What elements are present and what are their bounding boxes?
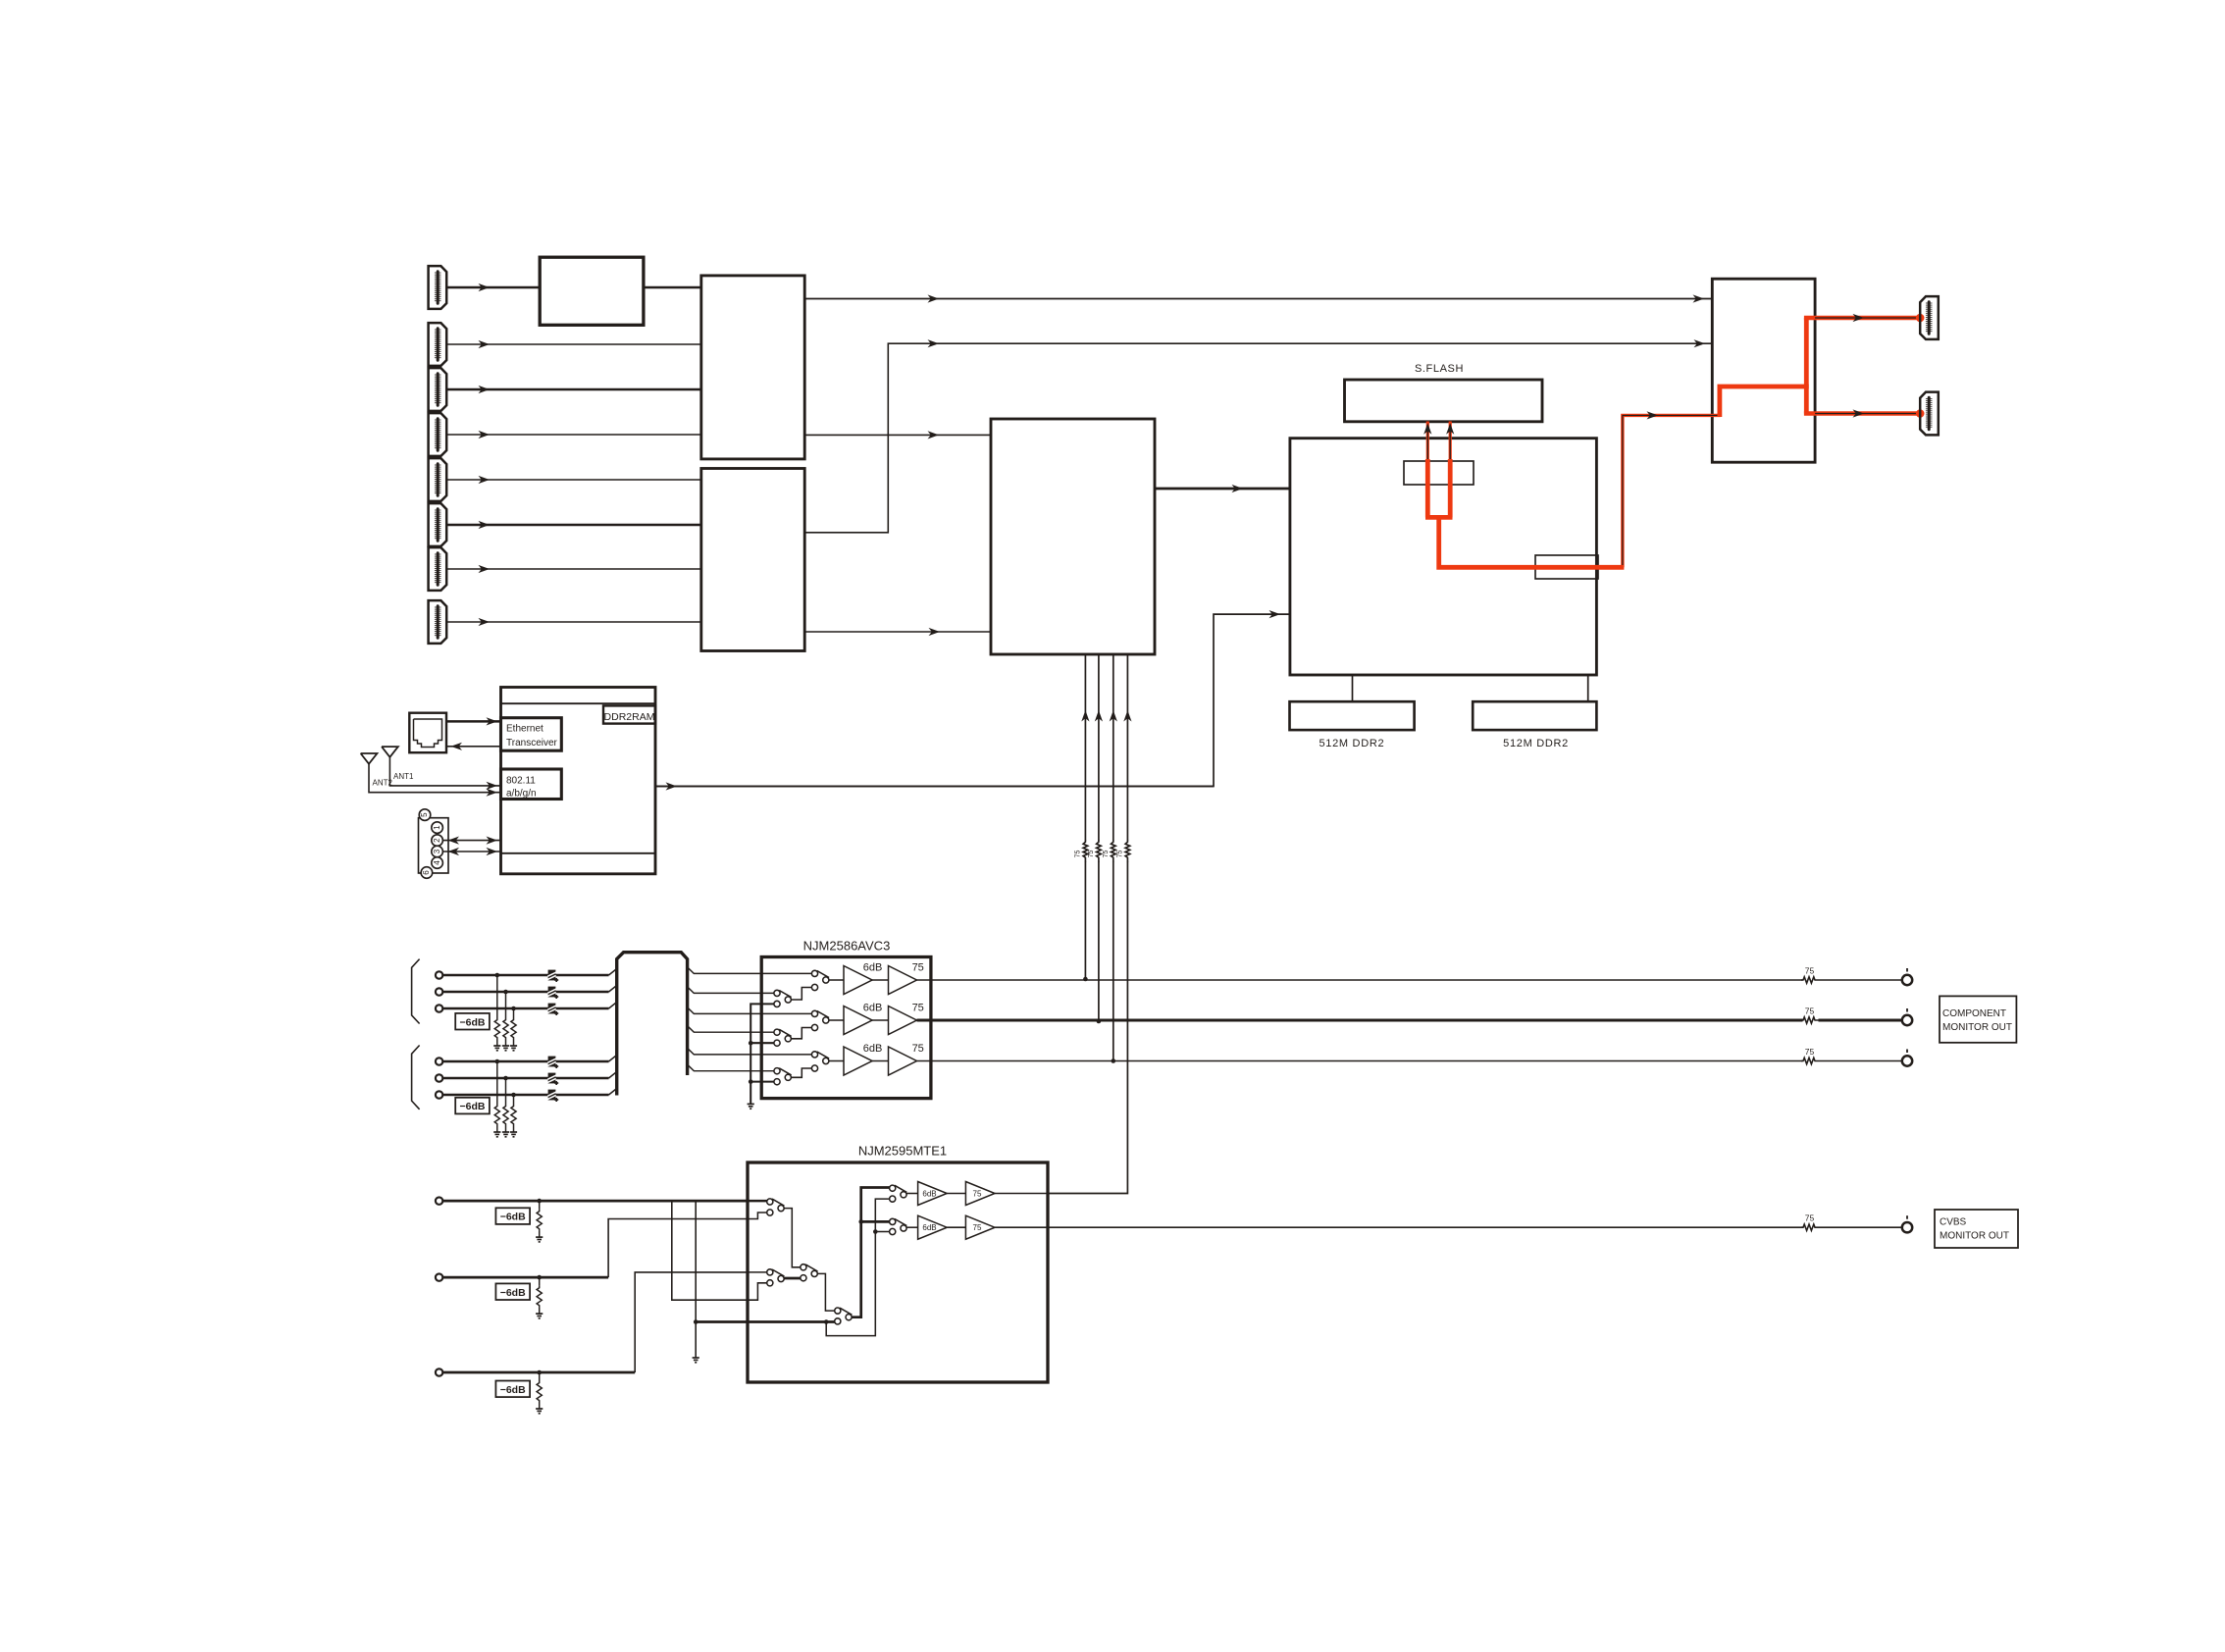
svg-text:Ethernet: Ethernet — [506, 724, 543, 735]
svg-text:MONITOR OUT: MONITOR OUT — [1940, 1231, 2009, 1242]
svg-text:75: 75 — [912, 1043, 924, 1055]
svg-text:75: 75 — [1103, 851, 1110, 858]
svg-text:6dB: 6dB — [863, 1003, 883, 1014]
svg-text:MONITOR OUT: MONITOR OUT — [1942, 1022, 2012, 1033]
svg-text:1: 1 — [433, 825, 441, 830]
svg-text:4: 4 — [433, 860, 441, 865]
svg-text:COMPONENT: COMPONENT — [1942, 1008, 2006, 1019]
svg-text:Transceiver: Transceiver — [506, 738, 558, 749]
svg-text:−6dB: −6dB — [500, 1384, 526, 1396]
svg-text:75: 75 — [912, 962, 924, 974]
svg-text:75: 75 — [1805, 1007, 1815, 1016]
svg-text:−6dB: −6dB — [460, 1101, 486, 1112]
svg-text:2: 2 — [433, 838, 441, 843]
svg-text:512M DDR2: 512M DDR2 — [1503, 738, 1569, 749]
svg-text:NJM2595MTE1: NJM2595MTE1 — [858, 1144, 947, 1159]
svg-text:−6dB: −6dB — [460, 1016, 486, 1028]
svg-text:75: 75 — [1075, 851, 1082, 858]
svg-text:75: 75 — [973, 1223, 982, 1232]
svg-text:NJM2586AVC3: NJM2586AVC3 — [803, 939, 891, 954]
svg-text:S.FLASH: S.FLASH — [1415, 363, 1464, 375]
svg-text:ANT1: ANT1 — [393, 772, 414, 781]
svg-text:6dB: 6dB — [863, 962, 883, 974]
svg-text:5: 5 — [420, 812, 429, 817]
svg-text:75: 75 — [1117, 851, 1124, 858]
svg-text:−6dB: −6dB — [500, 1287, 526, 1299]
svg-text:6dB: 6dB — [922, 1223, 936, 1232]
svg-text:6dB: 6dB — [922, 1190, 936, 1199]
svg-text:75: 75 — [1805, 966, 1815, 976]
svg-text:a/b/g/n: a/b/g/n — [506, 789, 537, 800]
svg-text:DDR2RAM: DDR2RAM — [604, 711, 655, 723]
svg-text:512M DDR2: 512M DDR2 — [1319, 738, 1384, 749]
svg-text:6: 6 — [422, 870, 431, 875]
svg-text:75: 75 — [973, 1190, 982, 1199]
svg-text:3: 3 — [433, 849, 441, 853]
svg-text:75: 75 — [1088, 851, 1095, 858]
svg-text:802.11: 802.11 — [506, 776, 536, 787]
svg-text:6dB: 6dB — [863, 1043, 883, 1055]
svg-text:75: 75 — [912, 1003, 924, 1014]
svg-text:CVBS: CVBS — [1940, 1217, 1967, 1228]
svg-text:−6dB: −6dB — [500, 1212, 526, 1223]
svg-text:75: 75 — [1805, 1213, 1815, 1223]
svg-text:ANT2: ANT2 — [373, 779, 393, 788]
svg-text:75: 75 — [1805, 1047, 1815, 1057]
